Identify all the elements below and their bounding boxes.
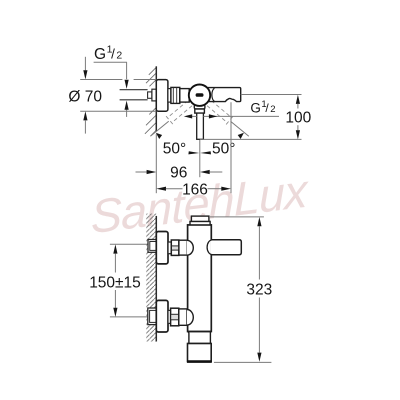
fillet arc bar-to-body [212,88,215,101]
G1/2 leader underline (top) [94,61,127,63]
wall hatch (top view) [145,67,156,136]
concealed union box lower [148,308,157,325]
50deg arc arrowheads at centerline [188,151,199,154]
96 dimension [136,171,148,173]
svg-text:96: 96 [170,165,187,182]
svg-text:G: G [250,100,261,115]
svg-text:323: 323 [246,281,272,298]
svg-text:150±15: 150±15 [89,275,141,292]
G1/2 right leader underline with arrow [203,115,279,117]
svg-text:50°: 50° [212,141,235,158]
166 dimension [156,187,166,191]
100 dimension (right) [241,94,302,96]
dashed swivel pipe right 50deg [206,99,233,124]
upper connection piece [179,240,187,255]
G 1/2 label (right) [250,99,275,116]
svg-text:2: 2 [270,104,275,115]
dashed swivel pipe left 50deg [166,99,193,124]
main body column [188,225,212,332]
body cap top small [190,221,210,225]
50deg outer tangent arrowheads [156,133,162,139]
spout/lever bar (top view) [206,88,241,102]
150 +/- 15 dimension [113,244,117,253]
323 dimension [209,216,264,218]
wall hatch band (front view) [146,214,156,342]
svg-text:50°: 50° [163,141,186,158]
lower connection piece [179,309,187,325]
lever indicator dash [196,93,204,97]
svg-text:/: / [111,47,115,62]
upper nut [171,240,179,255]
G1/2 dim arrows at pipe [126,62,128,79]
lower flange (front view) [156,300,168,332]
body circle (top view) [189,85,210,106]
svg-text:G: G [94,46,106,63]
neck nut-to-body [180,89,189,103]
upper shaft [168,242,171,254]
fillet arc lever-to-body [207,240,212,255]
G 1/2 label (top-left) [94,44,122,63]
upper flange (front view) [156,232,168,264]
lower dome into body [187,310,193,326]
lever bar (front view) [211,240,242,255]
svg-text:166: 166 [182,182,208,199]
flange escutcheon (top view, dia 70) [156,80,168,112]
svg-text:Ø 70: Ø 70 [68,88,102,105]
swivel axis extension line right [231,121,249,136]
extension lines below [155,134,157,193]
inlet pipe (top view) [120,90,148,100]
svg-text:2: 2 [116,50,122,62]
collar under body (top view) [194,105,205,109]
wall face line (top view) [155,66,157,131]
outlet cup [188,344,212,362]
lower nut [171,308,179,326]
150 dim extension lines [110,243,147,245]
nut (top view) [171,87,180,103]
outlet bands at body bottom [188,331,212,333]
down pipe / shower outlet (top view) [197,113,204,139]
svg-text:100: 100 [285,109,311,126]
lower shaft [168,310,171,323]
union cone box [152,89,156,101]
shaft flange-to-nut [168,89,171,103]
upper dome into body [187,240,193,255]
swivel axis extension line left [150,121,168,136]
concealed union box upper [148,240,156,253]
wall face line (front view) [155,216,157,342]
left swivel arrow [190,115,196,117]
union collar at wall [148,92,152,98]
